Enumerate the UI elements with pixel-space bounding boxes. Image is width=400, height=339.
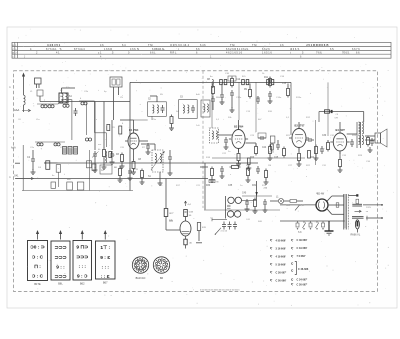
svg-text:Ϛ: Ϛ [291, 262, 294, 266]
svg-text:⊃⊃⊃: ⊃⊃⊃ [54, 275, 66, 280]
svg-text:Tr: Tr [338, 186, 340, 189]
svg-text:Ϛ: Ϛ [270, 255, 273, 259]
svg-text:: : Ɛ: : : Ɛ [101, 274, 110, 280]
svg-text:B2 2W4: B2 2W4 [234, 125, 244, 129]
svg-text:6 6 7 6: 6 6 7 6 [352, 48, 360, 51]
svg-text:3 16 666': 3 16 666' [276, 247, 287, 250]
svg-text:4 50 666': 4 50 666' [276, 239, 287, 242]
svg-text:8 7 6 tA 1: 8 7 6 tA 1 [46, 48, 57, 51]
svg-text:9 : Ɛ: 9 : Ɛ [100, 255, 110, 261]
svg-text:B67: B67 [103, 281, 108, 284]
svg-text:4 19 666': 4 19 666' [276, 255, 287, 258]
svg-text:J 5 1 R R R 6 6 /5: J 5 1 R R R 6 6 /5 [306, 43, 329, 47]
svg-text:B1TE: B1TE [34, 283, 41, 286]
svg-text:1M: 1M [268, 165, 271, 167]
svg-text:B123 1N: B123 1N [136, 277, 146, 280]
svg-text:6 6 2 6: 6 6 2 6 [262, 48, 270, 51]
svg-text:C 49 666': C 49 666' [297, 239, 308, 242]
svg-text:R30: R30 [206, 185, 211, 187]
svg-text:C40: C40 [242, 193, 247, 195]
svg-text:R31: R31 [252, 185, 257, 187]
svg-text:B62: B62 [80, 282, 85, 285]
svg-text:ΛΛ: ΛΛ [169, 219, 173, 223]
svg-text:AAA: AAA [14, 108, 19, 112]
svg-text:220V: 220V [366, 207, 372, 209]
svg-text:6 5.: 6 5. [330, 48, 334, 51]
svg-text:Ϛ: Ϛ [291, 278, 294, 282]
svg-text:M: M [217, 182, 219, 184]
svg-text:Ϛ: Ϛ [270, 263, 273, 267]
svg-text:Ɔ0 : ⊃: Ɔ0 : ⊃ [30, 245, 44, 251]
svg-text:⊃⊃⊃: ⊃⊃⊃ [76, 255, 88, 260]
svg-text:C24: C24 [262, 147, 267, 149]
svg-text:J: J [15, 53, 16, 55]
svg-text:C 26 667': C 26 667' [276, 271, 287, 274]
svg-text:C14a: C14a [276, 97, 282, 99]
svg-text:C 50 666': C 50 666' [276, 279, 287, 282]
svg-text:5 19 666': 5 19 666' [276, 263, 287, 266]
svg-text:R R L: R R L [170, 52, 177, 55]
svg-text:AAA: AAA [11, 147, 16, 150]
svg-text:⊃⊃⊃: ⊃⊃⊃ [54, 256, 66, 261]
svg-text:C15: C15 [282, 83, 287, 85]
svg-text:Ϛ: Ϛ [291, 239, 294, 243]
svg-text:C 24 667': C 24 667' [297, 279, 308, 282]
svg-text:T M: T M [252, 43, 256, 47]
svg-text:7 0 666': 7 0 666' [297, 255, 306, 258]
svg-text:B6L: B6L [58, 282, 63, 285]
svg-text:Ϛ: Ϛ [270, 279, 273, 283]
svg-text:C30: C30 [322, 135, 327, 137]
svg-text:6 4 6: 6 4 6 [200, 44, 206, 47]
svg-text:1 6 5 1 6: 1 6 5 1 6 [262, 52, 272, 55]
svg-text:8 T 6 tA 4: 8 T 6 tA 4 [74, 48, 85, 51]
svg-text:Ϛ: Ϛ [270, 239, 273, 243]
svg-text:9 : Ɔ: 9 : Ɔ [77, 274, 88, 280]
svg-text:1 6 6 R: 1 6 6 R [104, 48, 112, 51]
svg-text:Ϛ: Ϛ [270, 271, 273, 275]
svg-text:4 6 2 1 6 5 1 6: 4 6 2 1 6 5 1 6 [226, 52, 243, 55]
svg-text:S K: S K [298, 232, 302, 234]
svg-text:OR: OR [335, 118, 339, 120]
svg-text:6 6 L: 6 6 L [150, 52, 156, 55]
svg-text:9 ⊓⊃: 9 ⊓⊃ [76, 245, 88, 251]
svg-text:4 n4 n6: 4 n4 n6 [221, 231, 229, 233]
svg-text:Ϛ: Ϛ [291, 247, 294, 251]
svg-text:7 6 6.: 7 6 6. [316, 52, 323, 55]
svg-text:6 66 666 66 66 6666 66 66 6 66: 6 66 666 66 66 6666 66 66 6 666 6 66 666… [200, 289, 240, 291]
svg-text:Ɔ : C: Ɔ : C [32, 254, 44, 260]
svg-text:R666 VL: R666 VL [351, 234, 361, 237]
svg-text:T M: T M [148, 43, 152, 47]
svg-text:Ϛ: Ϛ [291, 283, 294, 287]
svg-text:O R 5. 6 0. 16. 4: O R 5. 6 0. 16. 4 [170, 43, 190, 47]
svg-text:6,3V: 6,3V [300, 205, 305, 207]
svg-text:C 26 667': C 26 667' [297, 283, 308, 286]
svg-text:R24: R24 [310, 157, 315, 159]
svg-text:: : :: : : : [79, 265, 87, 270]
svg-text:⊃⊃⊃: ⊃⊃⊃ [54, 246, 66, 251]
svg-text:Ɔ : C: Ɔ : C [32, 274, 44, 280]
svg-text:Ϛ: Ϛ [291, 269, 294, 273]
svg-text:1⊤ :: 1⊤ : [100, 245, 110, 251]
svg-text:6 6: 6 6 [196, 48, 200, 51]
svg-text:6 4: 6 4 [122, 44, 126, 47]
svg-text:C 19 666': C 19 666' [297, 247, 308, 250]
svg-text:Ϛ: Ϛ [270, 247, 273, 251]
svg-text:B1 2W4: B1 2W4 [129, 128, 139, 132]
svg-text:R13a: R13a [296, 97, 302, 99]
svg-text:B4 2W7: B4 2W7 [336, 128, 346, 132]
svg-text:c: c [96, 119, 97, 121]
svg-text:G41: G41 [14, 176, 19, 178]
svg-text:9 : :: 9 : : [56, 264, 65, 270]
svg-text:C12: C12 [236, 79, 241, 81]
svg-text:R/W04: R/W04 [268, 152, 275, 154]
svg-text:Ϛ: Ϛ [291, 255, 294, 259]
svg-text:4 6 6. 5i: 4 6 6. 5i [130, 48, 139, 51]
svg-text:4 6: 4 6 [280, 44, 284, 47]
svg-text:T M: T M [230, 43, 234, 47]
svg-text:76 6 5.: 76 6 5. [342, 52, 350, 55]
svg-text:C35: C35 [228, 185, 233, 187]
svg-text:B3 2T07: B3 2T07 [295, 124, 306, 128]
svg-text:4 1: 4 1 [56, 52, 60, 55]
svg-text:t6 6 6. 5.: t6 6 6. 5. [290, 48, 300, 51]
svg-text:⊓ :: ⊓ : [34, 264, 41, 270]
svg-text:C 46-666: C 46-666 [298, 268, 309, 271]
svg-text:6 6 2 6 R 6 1 0 6 21.: 6 6 2 6 R 6 1 0 6 21. [226, 48, 249, 51]
svg-text:6 R6/1R AL: 6 R6/1R AL [152, 48, 165, 51]
svg-text:4 4 6 4 5 1: 4 4 6 4 5 1 [47, 43, 61, 47]
svg-text:: : :: : : : [102, 265, 110, 270]
svg-text:4 6: 4 6 [100, 44, 104, 47]
svg-text:6 6: 6 6 [356, 52, 360, 55]
